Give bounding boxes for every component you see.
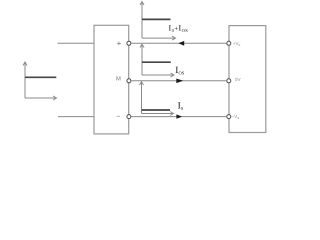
current arrow on bottom wire (points right) <box>176 114 182 118</box>
node: right block -Vs terminal <box>227 115 231 119</box>
wire: top supply wire <box>131 42 227 44</box>
svg-text:I0+IOS: I0+IOS <box>169 24 189 33</box>
input waveform graph icon <box>23 62 57 100</box>
left block (device under test) <box>94 25 129 134</box>
wire: input stub top (to + side) <box>58 42 95 44</box>
node: left block - terminal <box>127 115 131 119</box>
node: left block M terminal <box>127 79 131 83</box>
svg-text:0V: 0V <box>235 77 242 82</box>
svg-text:−Vs: −Vs <box>232 114 240 120</box>
svg-text:I0: I0 <box>178 101 184 111</box>
node: right block 0V terminal <box>227 79 231 83</box>
current arrow on top wire (points left) <box>178 41 184 46</box>
wire: input stub bottom (to - side) <box>58 116 94 118</box>
node: right block +Vs terminal <box>227 41 231 45</box>
current arrow on middle wire (points right) <box>176 79 183 84</box>
svg-text:IOS: IOS <box>175 66 184 76</box>
waveform graph icon for I0+IOS (top) <box>140 2 176 41</box>
right block (power supply) <box>229 26 266 133</box>
waveform graph icon for IOS (middle) <box>140 44 174 77</box>
svg-text:+: + <box>117 39 122 48</box>
svg-text:M: M <box>116 76 121 83</box>
svg-text:+Vs: +Vs <box>233 41 241 47</box>
wire: bottom supply wire <box>131 116 227 118</box>
waveform graph icon for I0 (bottom) <box>140 82 174 116</box>
wire: middle supply wire <box>131 80 227 82</box>
svg-text:−: − <box>116 114 120 121</box>
node: left block + terminal <box>127 41 131 45</box>
